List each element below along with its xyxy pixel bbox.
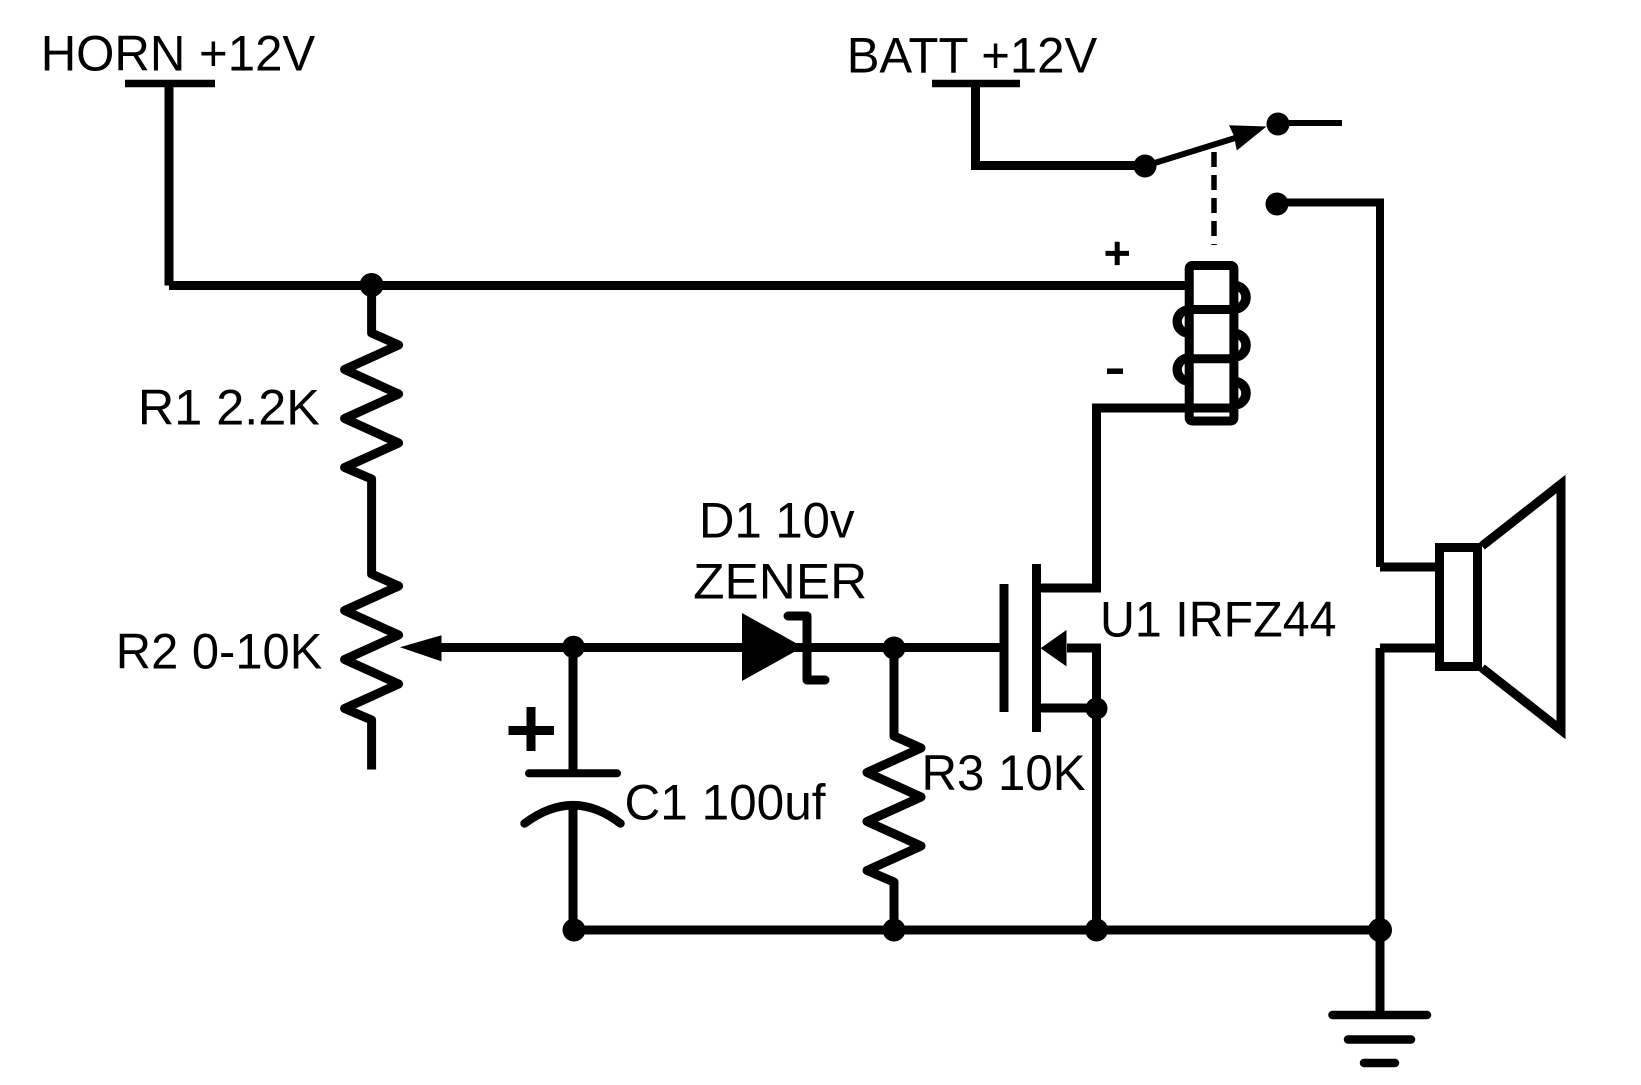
svg-text:HORN +12V: HORN +12V xyxy=(41,25,316,81)
svg-text:R3 10K: R3 10K xyxy=(922,745,1086,801)
svg-text:ZENER: ZENER xyxy=(693,553,867,609)
svg-text:R1 2.2K: R1 2.2K xyxy=(138,380,320,436)
svg-text:U1 IRFZ44: U1 IRFZ44 xyxy=(1100,591,1337,647)
svg-text:C1 100uf: C1 100uf xyxy=(625,775,826,831)
svg-text:BATT +12V: BATT +12V xyxy=(847,28,1098,84)
svg-text:D1 10v: D1 10v xyxy=(699,493,855,549)
svg-text:R2 0-10K: R2 0-10K xyxy=(116,623,322,679)
